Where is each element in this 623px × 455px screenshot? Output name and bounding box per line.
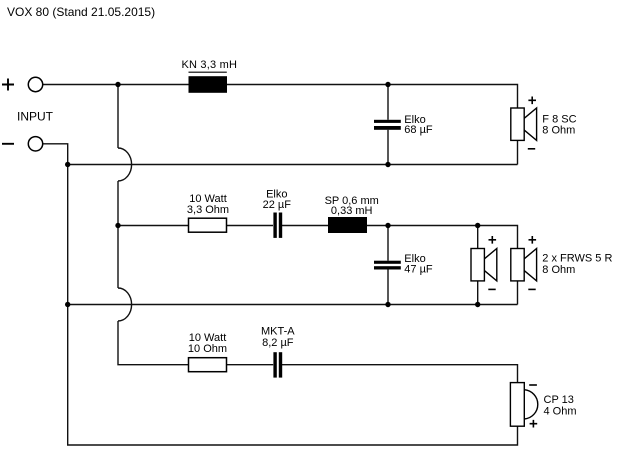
wire minus bus lower and bottom rail into LS4 — [68, 305, 518, 446]
svg-text:8 Ohm: 8 Ohm — [542, 264, 575, 276]
wire plus bus upper — [117, 85, 119, 149]
node minus bus return 1 — [65, 162, 70, 167]
wire minus bus middle — [67, 165, 69, 305]
speaker LS1 plus mark — [528, 97, 536, 105]
wire C1 bottom lead — [387, 130, 389, 165]
speaker LS4 CP 13 body — [510, 383, 537, 427]
capacitor C3 Elko 47 uF plates — [374, 261, 401, 270]
wire hop over return rail 1 — [118, 148, 132, 181]
node C1 top — [385, 82, 390, 87]
wire mid branch junction B to LS2 tap — [388, 225, 478, 227]
speaker LS3 FRWS body — [511, 249, 537, 281]
wire mid branch corner into LS3 — [478, 226, 518, 249]
wire LS1 bottom lead — [517, 140, 519, 164]
node plus bus mid branch — [115, 223, 120, 228]
inductor L1 KN 3,3 mH body — [189, 76, 228, 93]
speaker LS2 plus mark — [489, 236, 497, 244]
speaker LS4 minus mark — [529, 384, 537, 386]
svg-text:MKT-A: MKT-A — [261, 325, 295, 337]
input minus sign — [2, 143, 14, 145]
capacitor C4 MKT-A 8,2 uF plates — [273, 352, 282, 377]
svg-text:68 µF: 68 µF — [404, 124, 433, 136]
svg-text:4 Ohm: 4 Ohm — [544, 406, 577, 418]
speaker LS3 plus mark — [529, 236, 537, 244]
wire minus terminal to minus bus corner — [43, 144, 68, 165]
wire LS2 top lead — [477, 226, 479, 249]
svg-text:8 Ohm: 8 Ohm — [542, 124, 575, 136]
wire mid branch from C2 to junction node B — [281, 225, 388, 227]
wire mid branch left of C2 — [118, 225, 273, 227]
speaker LS4 plus mark — [530, 420, 538, 428]
resistor R1 10 Watt 3,3 Ohm body — [189, 218, 227, 232]
svg-text:CP 13: CP 13 — [544, 394, 574, 406]
wire return rail 2 — [68, 304, 518, 306]
svg-text:22 µF: 22 µF — [263, 199, 292, 211]
node minus bus return 2 — [65, 302, 70, 307]
node junction dots — [65, 82, 480, 307]
svg-text:VOX 80 (Stand 21.05.2015): VOX 80 (Stand 21.05.2015) — [7, 5, 155, 19]
speaker LS1 F 8 SC body — [511, 108, 537, 140]
wire plus bus between hop1 and mid branch — [117, 181, 119, 288]
wire LS2 bottom lead — [477, 281, 479, 305]
resistor R2 10 Watt 10 Ohm body — [189, 358, 227, 372]
wire LS3 bottom lead — [517, 281, 519, 305]
node C1 bottom — [385, 162, 390, 167]
node C3 top — [385, 223, 390, 228]
svg-text:10 Ohm: 10 Ohm — [188, 343, 227, 355]
svg-text:INPUT: INPUT — [17, 110, 54, 124]
wire plus bus lower into bottom branch — [118, 321, 189, 365]
wire bottom branch from C4 to corner into LS4 — [282, 365, 518, 383]
svg-text:2 x FRWS 5 R: 2 x FRWS 5 R — [542, 252, 612, 264]
node C3 bottom — [385, 302, 390, 307]
node plus bus top — [115, 82, 120, 87]
input plus sign — [2, 79, 14, 91]
node LS2 top tap — [475, 223, 480, 228]
capacitor C1 Elko 68 uF plates — [374, 120, 401, 130]
inductor L1 label underline — [189, 71, 227, 73]
speaker LS3 minus mark — [528, 288, 535, 290]
speaker LS2 FRWS body — [471, 249, 497, 281]
svg-text:0,33 mH: 0,33 mH — [331, 205, 373, 217]
capacitor C2 Elko 22 uF plates — [273, 213, 282, 238]
wire return rail 1 — [68, 164, 518, 166]
svg-text:3,3 Ohm: 3,3 Ohm — [187, 204, 229, 216]
input terminal plus — [28, 77, 42, 91]
node LS2 bottom tap — [475, 302, 480, 307]
svg-text:8,2 µF: 8,2 µF — [262, 337, 294, 349]
svg-text:KN 3,3 mH: KN 3,3 mH — [182, 59, 238, 71]
speaker LS1 minus mark — [528, 148, 535, 150]
wire top rail from plus terminal to right corner into LS1 — [43, 85, 518, 109]
wire C3 top lead — [387, 226, 389, 261]
wire C1 top lead — [387, 85, 389, 120]
input terminal minus — [28, 137, 42, 151]
wire bottom branch from R2 to C4 — [227, 364, 274, 366]
wire C3 bottom lead — [387, 269, 389, 305]
inductor L2 SP 0,33 mH body — [328, 217, 367, 233]
wire hop over return rail 2 — [118, 288, 132, 321]
speaker LS2 minus mark — [488, 288, 495, 290]
svg-text:47 µF: 47 µF — [404, 263, 433, 275]
